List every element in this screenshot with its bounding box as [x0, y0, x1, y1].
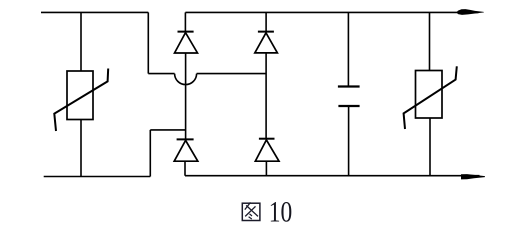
diode D3 triangle [174, 140, 198, 161]
varistor RV2 top lead [429, 12, 431, 70]
wire drop from top-left rail to hop wire [147, 12, 149, 73]
diode D2 cathode bar [258, 31, 274, 33]
arrow bottom rail output [461, 174, 485, 179]
capacitor C1 bottom plate [338, 105, 359, 107]
wire top-left rail [41, 11, 148, 13]
arrow top rail output [457, 9, 485, 15]
caption character 图 (hand-drawn) [242, 202, 260, 220]
wire bottom-left rail [44, 176, 151, 178]
wire left bridge vertical [185, 53, 187, 139]
wire top-right rail [185, 11, 478, 13]
svg-text:10: 10 [269, 197, 293, 229]
capacitor C1 top plate [338, 85, 360, 87]
diode D2 cathode lead [265, 12, 267, 31]
wire right bridge vertical [265, 53, 267, 139]
wire hop (crossover arc) [175, 74, 197, 85]
wire bottom-right rail [185, 175, 480, 177]
diode D4 anode lead [265, 161, 267, 176]
diode D3 anode lead [184, 161, 186, 176]
wire hop-right segment to right bridge node [197, 73, 267, 75]
wire jog up from bottom-left rail [149, 130, 151, 177]
varistor RV2 body [416, 71, 443, 119]
diode D1 triangle [175, 33, 198, 53]
varistor RV1 top lead [80, 12, 82, 71]
varistor RV1 diagonal stroke [54, 69, 108, 132]
diode D2 triangle [255, 33, 278, 53]
capacitor C1 top lead [347, 12, 349, 85]
varistor RV2 diagonal stroke [404, 66, 457, 129]
diode D1 cathode bar [178, 31, 194, 33]
varistor RV1 bottom lead [80, 120, 82, 177]
wire jog horizontal to left bridge node [150, 129, 185, 131]
diode D1 cathode lead [184, 12, 186, 31]
varistor RV2 bottom lead [429, 118, 431, 176]
capacitor C1 bottom lead [348, 107, 350, 176]
diode D4 triangle [255, 140, 279, 161]
varistor RV1 body [67, 71, 93, 120]
wire hop-left segment [148, 73, 174, 75]
diode D3 cathode bar [177, 138, 194, 140]
diode D4 cathode bar [259, 138, 275, 140]
